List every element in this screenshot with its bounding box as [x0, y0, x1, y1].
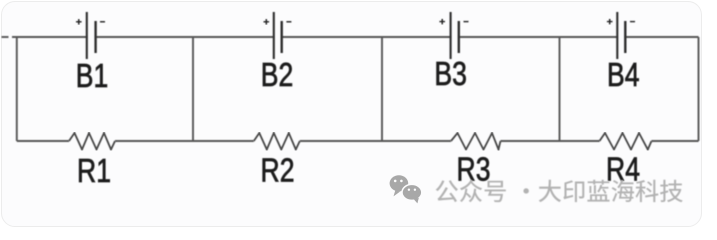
wire: right vertical branch — [698, 37, 700, 141]
battery B3 — [450, 12, 452, 59]
wire: bottom bus segment left corner to R1 — [17, 140, 69, 142]
polarity + of B1 — [76, 19, 82, 25]
svg-text:R1: R1 — [77, 153, 111, 189]
polarity - of B2 — [286, 21, 291, 23]
watermark text 公众号 · 大印蓝海科技 — [436, 180, 683, 203]
polarity + of B4 — [607, 19, 613, 25]
svg-text:R3: R3 — [457, 152, 491, 188]
svg-text:B1: B1 — [76, 58, 108, 94]
polarity + of B3 — [439, 19, 445, 25]
wire: top bus segment 3 (B2 -plate to B3 +plate) — [282, 36, 451, 38]
watermark wechat icon — [390, 175, 422, 203]
battery B1 — [86, 12, 88, 59]
wire: top bus segment 1 (left end to B1 +plate) — [12, 36, 87, 38]
resistor R2 — [254, 133, 300, 150]
wire: bottom bus segment R4 to right corner — [652, 140, 699, 142]
polarity - of B3 — [464, 21, 469, 23]
small chat bubble — [402, 184, 422, 200]
wire: top bus left stub — [2, 36, 9, 38]
svg-text:B2: B2 — [261, 57, 293, 93]
svg-text:B3: B3 — [434, 56, 466, 92]
battery B2 — [273, 12, 275, 59]
resistor R3 — [451, 133, 501, 150]
wire: bottom bus segment R2 to R3 — [300, 140, 451, 142]
polarity - of B1 — [100, 21, 105, 23]
resistor R1 — [69, 133, 115, 150]
svg-text:R2: R2 — [261, 153, 295, 189]
battery B4 — [616, 12, 618, 59]
wire: vertical branch between cells 1-2 — [192, 37, 194, 141]
wire: top bus segment 4 (B3 -plate to B4 +plate) — [459, 36, 618, 38]
resistor R4 — [600, 133, 652, 150]
svg-text:B4: B4 — [607, 57, 639, 93]
wire: bottom bus segment R1 to R2 — [115, 140, 254, 142]
wire: vertical branch between cells 2-3 — [381, 37, 383, 141]
wire: top bus segment 5 (B4 -plate to right corner) — [625, 36, 698, 38]
large chat bubble — [390, 175, 409, 191]
wire: vertical branch between cells 3-4 — [559, 37, 561, 141]
polarity + of B2 — [264, 19, 270, 25]
polarity - of B4 — [630, 21, 635, 23]
wire: left vertical branch — [16, 37, 18, 141]
wire: top bus segment 2 (B1 -plate to B2 +plate) — [96, 36, 274, 38]
wire: bottom bus segment R3 to R4 — [501, 140, 600, 142]
